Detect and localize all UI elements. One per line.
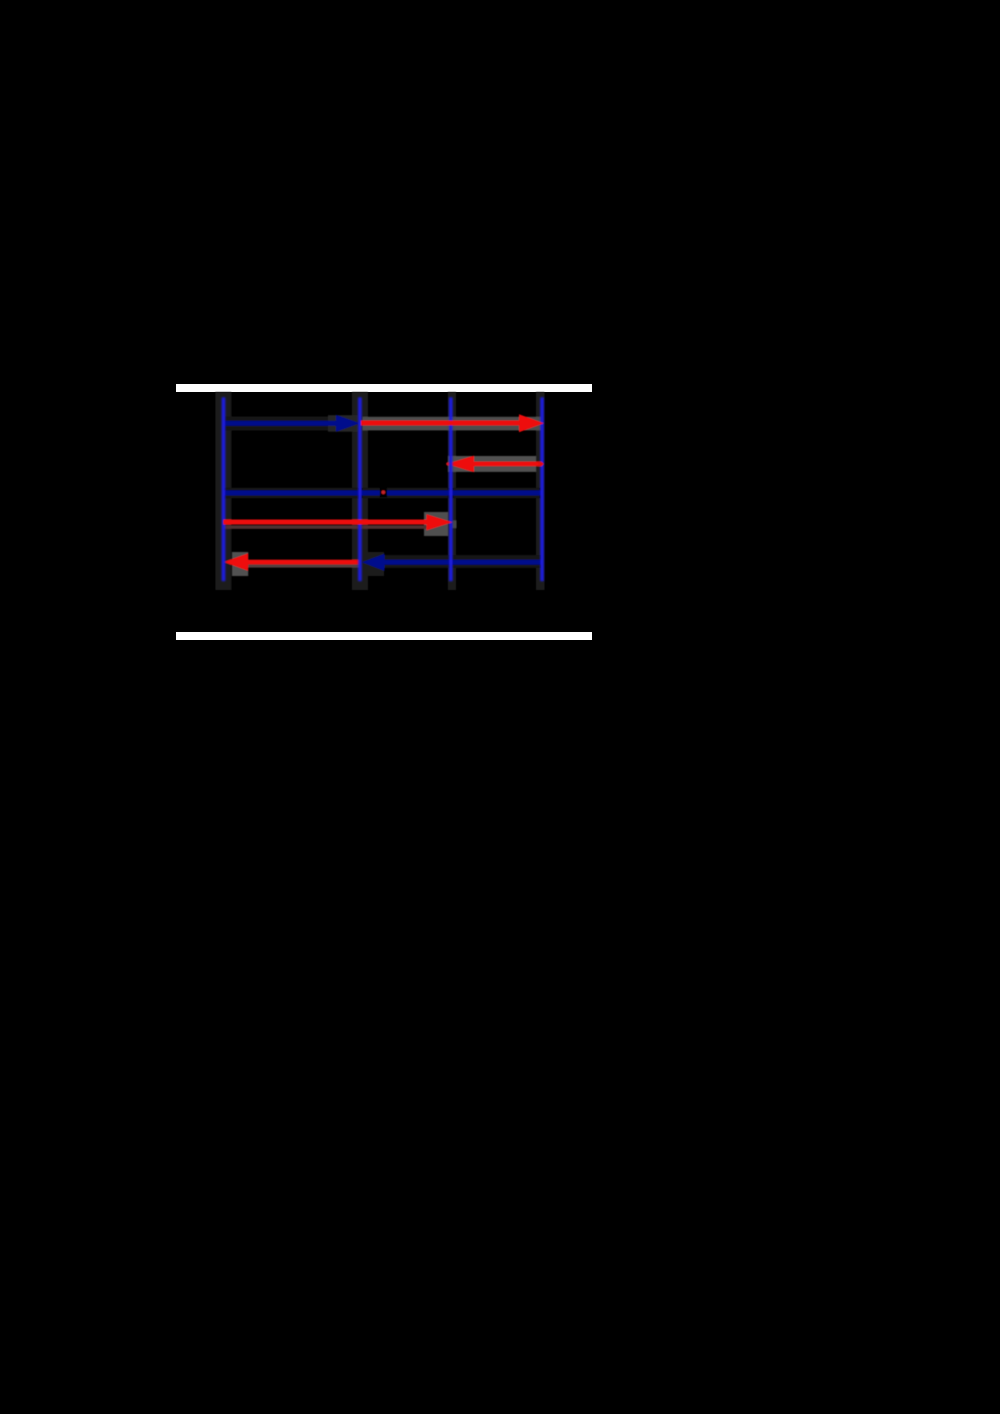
lifeline halo L2 [352, 392, 368, 590]
message arrow M3 red L4 to L3 [446, 456, 542, 473]
M3 red line end taper over lifeline L4 [538, 462, 544, 467]
gap in M4 line around red dot [380, 488, 387, 498]
bottom border rule [176, 632, 592, 640]
message line M4 blue L1 to L4 [223, 488, 542, 499]
message arrow M6 red L2 to L1 [224, 552, 360, 576]
message arrow M5 red L1 to L3 [223, 512, 456, 536]
lifeline L3 [449, 398, 452, 582]
arrowhead of M5 over lifeline L3 [427, 514, 453, 530]
lifeline L4 [540, 398, 543, 582]
lifeline L2 [358, 398, 361, 582]
lifeline L1 [222, 398, 225, 582]
top border rule [176, 384, 592, 392]
arrowhead of M2 over lifeline L4 [519, 414, 544, 432]
message arrow M2 red L2 to L4 [361, 417, 541, 431]
lifeline halo L4 [536, 392, 544, 590]
message arrow M1 blue L1 to L2 [223, 415, 360, 432]
lifeline halo L1 [215, 392, 231, 590]
M2 red line over crossings [361, 421, 521, 426]
message arrow M7 blue L4 to L2 [362, 552, 542, 576]
M5 red line over crossings [223, 520, 427, 525]
lifeline halo L3 [448, 392, 456, 590]
node red dot on M4 [381, 490, 385, 494]
